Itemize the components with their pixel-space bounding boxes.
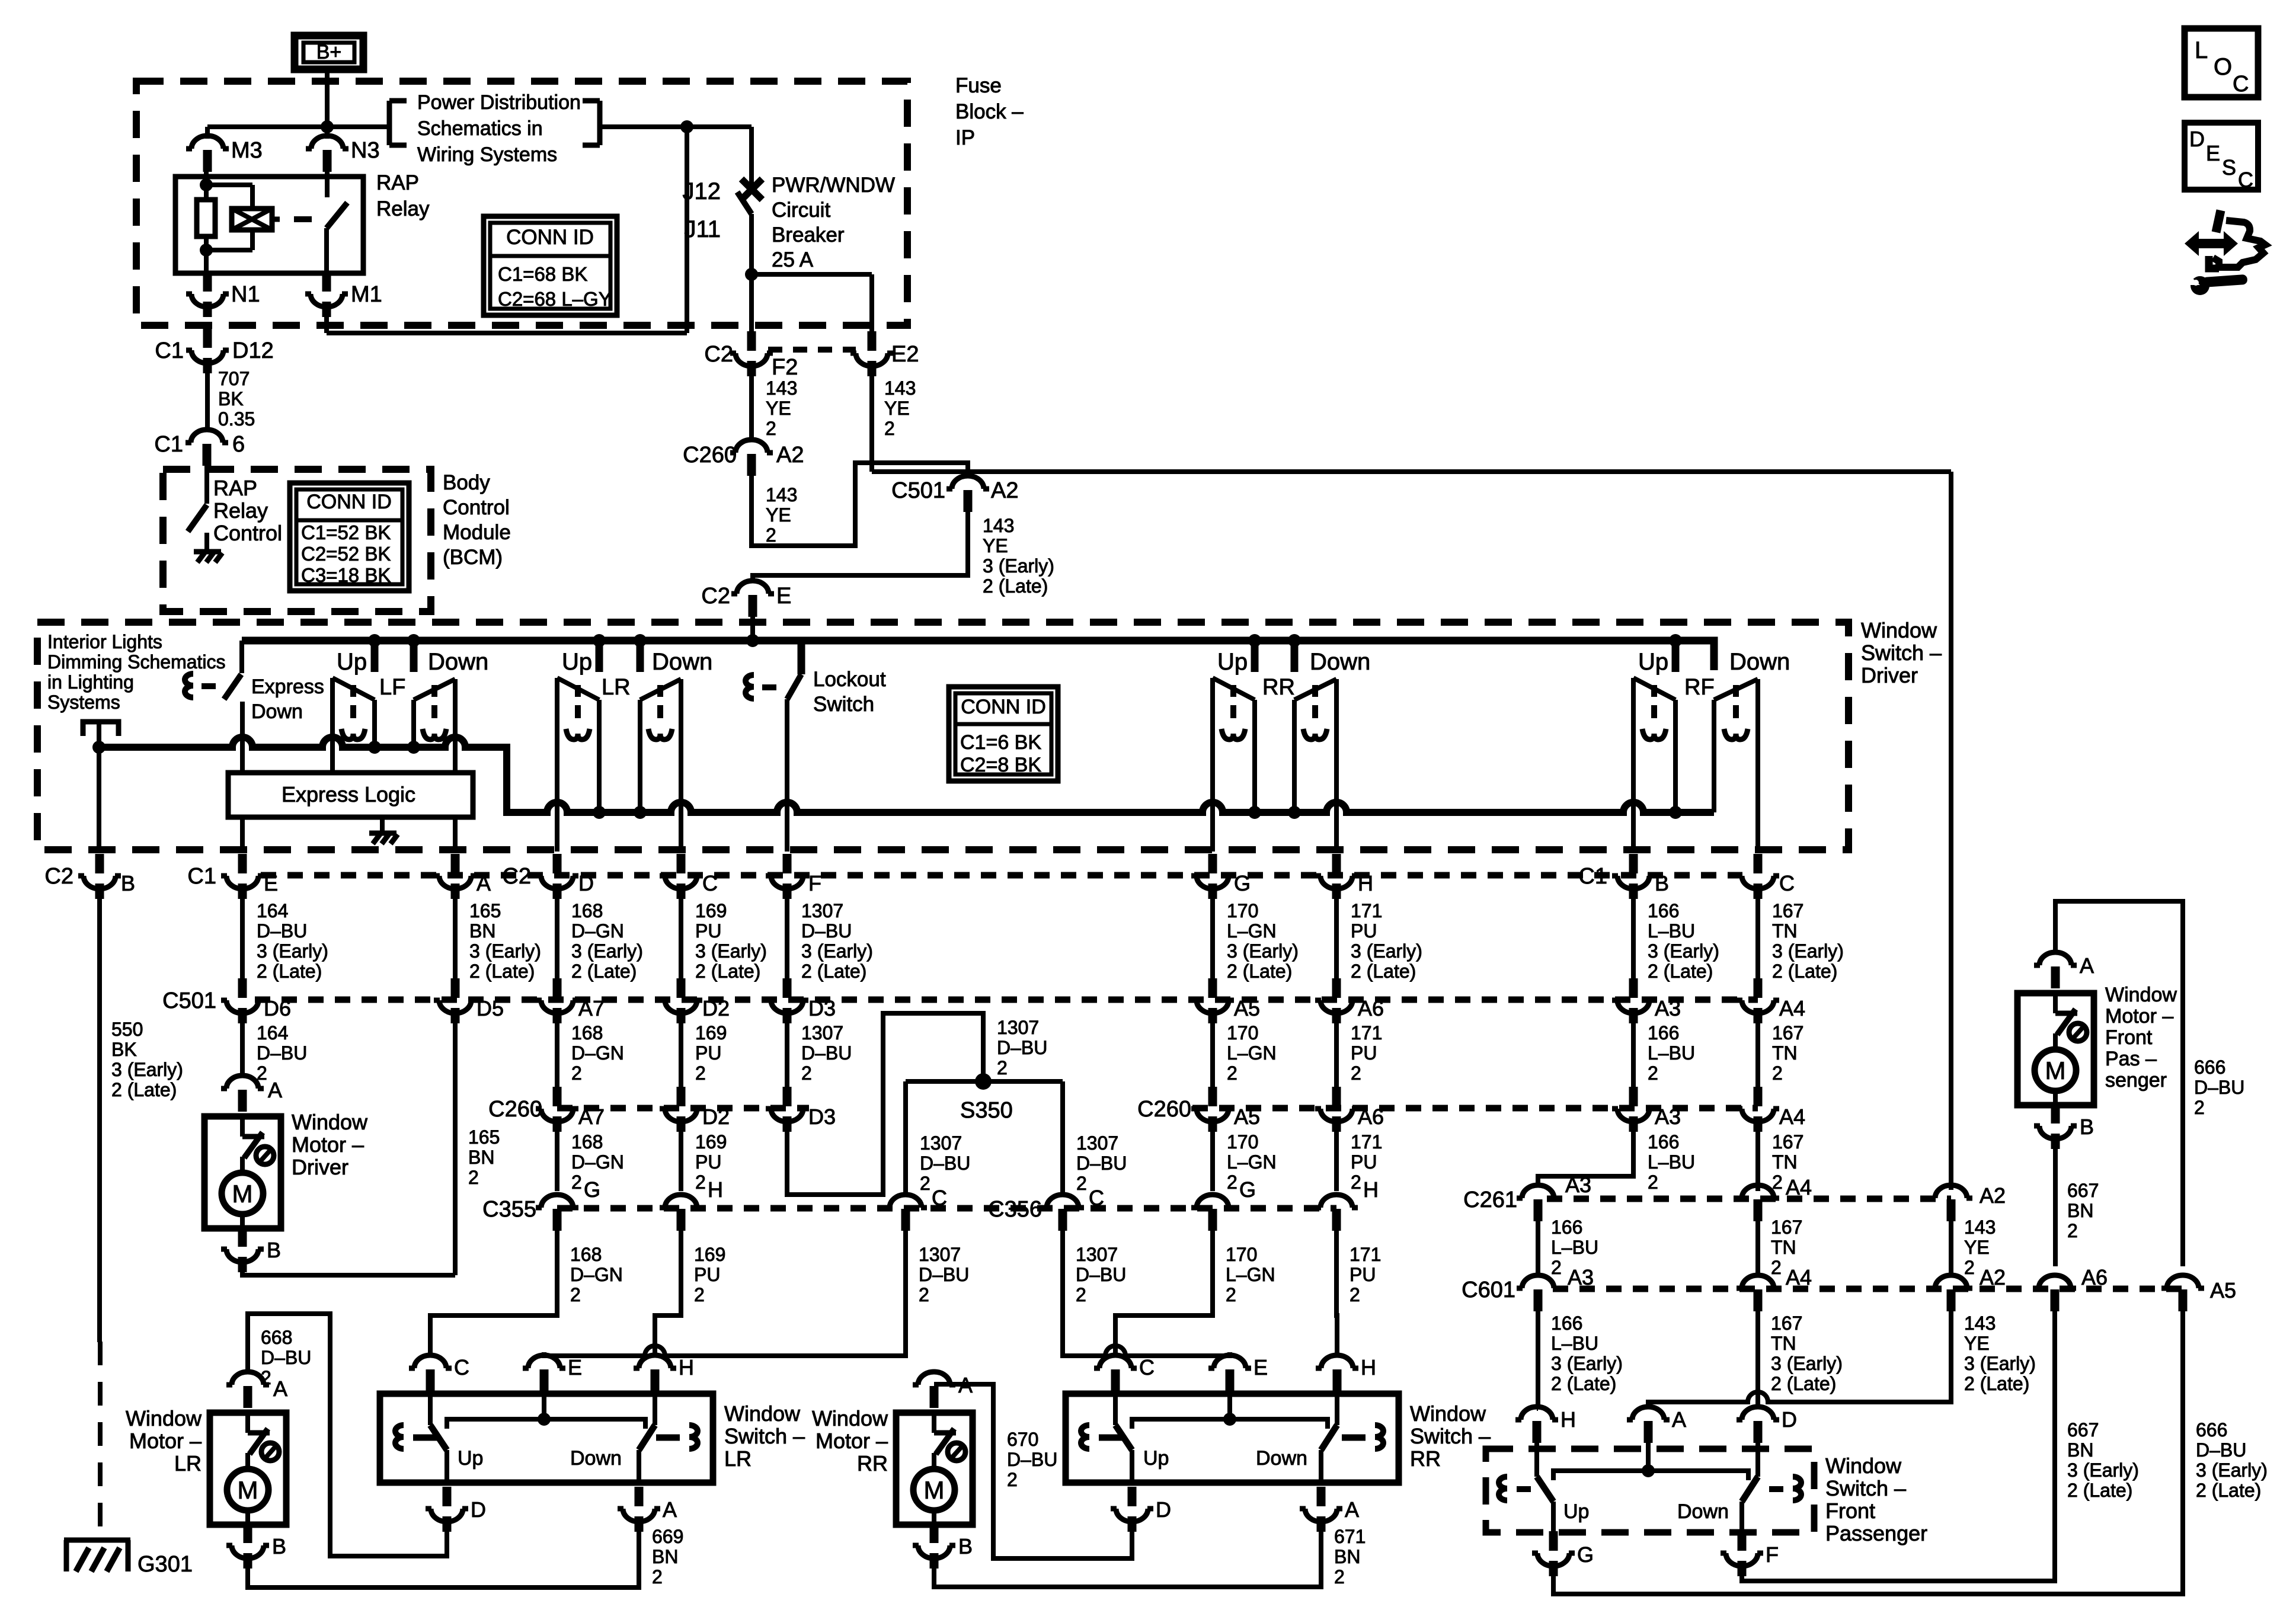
body control module dashed box	[163, 469, 431, 612]
svg-text:167: 167	[1772, 1131, 1803, 1153]
svg-text:2: 2	[2067, 1220, 2078, 1241]
svg-text:senger: senger	[2105, 1069, 2167, 1092]
label 667 BN 2	[2067, 1180, 2099, 1241]
express down switch	[224, 641, 242, 773]
C355 C356 dashed row	[557, 1205, 1336, 1212]
wire 550 BK dashed	[98, 1342, 103, 1536]
connector RR E	[1208, 1355, 1268, 1391]
svg-text:164: 164	[257, 1022, 288, 1044]
wire label 169 PU 2 x1149	[695, 1022, 727, 1084]
wire breaker to E2	[752, 274, 872, 347]
svg-text:2: 2	[997, 1057, 1008, 1078]
svg-text:2: 2	[919, 1284, 929, 1305]
relay actuator dash	[294, 216, 312, 222]
label 1307 D-BU 2 to LR	[919, 1244, 969, 1305]
connector LR E	[523, 1355, 582, 1391]
svg-text:L–BU: L–BU	[1648, 1042, 1695, 1064]
svg-text:3 (Early): 3 (Early)	[983, 555, 1054, 577]
wire label 164 D–BU x409	[257, 900, 328, 982]
svg-text:H: H	[1560, 1407, 1576, 1432]
svg-text:C260: C260	[488, 1097, 542, 1122]
wire B+ to junction	[321, 69, 334, 133]
connector RR A	[1300, 1487, 1359, 1532]
svg-text:LF: LF	[379, 675, 405, 700]
svg-text:Down: Down	[1310, 649, 1370, 675]
connector C501 A5	[1191, 978, 1260, 1023]
labels FP Up Down	[1563, 1500, 1729, 1523]
svg-text:BN: BN	[2067, 1200, 2093, 1221]
connector LR D	[426, 1487, 486, 1532]
svg-text:CONN ID: CONN ID	[506, 226, 594, 249]
svg-text:A: A	[1672, 1407, 1686, 1432]
svg-text:RAP: RAP	[376, 171, 419, 194]
svg-text:A2: A2	[1980, 1183, 2006, 1208]
connector C row1 x1149	[660, 854, 718, 899]
svg-text:170: 170	[1227, 900, 1258, 921]
label 671 BN 2	[1334, 1526, 1366, 1587]
connector C2 D row1 x940	[502, 854, 594, 899]
wire D12 to C1 6	[205, 373, 210, 431]
svg-text:A7: A7	[578, 1105, 605, 1129]
connector C261 A3	[1463, 1185, 1559, 1221]
svg-text:H: H	[679, 1355, 694, 1379]
svg-text:L–BU: L–BU	[1551, 1237, 1598, 1258]
lockout switch	[787, 644, 801, 852]
svg-text:165: 165	[469, 900, 501, 921]
svg-text:2 (Late): 2 (Late)	[1648, 961, 1713, 982]
svg-text:G: G	[1239, 1177, 1256, 1202]
wire LR motor B to switch A	[248, 1532, 639, 1587]
wire label 164 D–BU 2 x409	[257, 1022, 307, 1084]
LF window switch contacts	[332, 678, 455, 773]
wire H to RR H	[1336, 1230, 1337, 1355]
labels RR Up Down	[1143, 1447, 1307, 1470]
label 668 D-BU 2	[261, 1327, 311, 1388]
svg-text:A4: A4	[1786, 1175, 1812, 1199]
svg-text:L–GN: L–GN	[1226, 1264, 1275, 1285]
window switch driver dashed box	[37, 622, 1849, 850]
svg-text:2: 2	[1350, 1284, 1360, 1305]
wire label 1307 D–BU 2 x1328	[801, 1022, 852, 1084]
window switch LR box	[380, 1378, 713, 1483]
svg-text:2: 2	[1964, 1257, 1975, 1278]
svg-text:C1=6 BK: C1=6 BK	[960, 731, 1041, 754]
svg-text:E: E	[776, 584, 791, 609]
svg-text:2 (Late): 2 (Late)	[1772, 961, 1837, 982]
svg-text:A: A	[273, 1377, 287, 1401]
row3 dashed line	[557, 1105, 1758, 1112]
svg-text:Window: Window	[292, 1110, 368, 1134]
svg-text:C: C	[454, 1355, 469, 1379]
svg-text:Body: Body	[443, 471, 490, 494]
svg-text:2 (Late): 2 (Late)	[1551, 1373, 1616, 1394]
connector G row1 x2046	[1191, 854, 1251, 899]
label 550 BK	[111, 1019, 183, 1100]
label 669 BN 2	[652, 1526, 683, 1587]
connector C355row x2046	[1191, 1195, 1234, 1231]
wire C356 C to RR E	[1063, 1230, 1230, 1356]
svg-text:Down: Down	[428, 649, 488, 675]
connector C501 A6	[1315, 978, 1384, 1023]
fuse block IP dashed box	[136, 81, 907, 325]
svg-text:3 (Early): 3 (Early)	[1964, 1353, 2036, 1374]
svg-text:D–GN: D–GN	[571, 920, 624, 942]
svg-text:2: 2	[1076, 1173, 1087, 1194]
wire G to LR C	[430, 1230, 557, 1355]
wire RR D to motor A	[934, 1384, 1132, 1558]
svg-text:667: 667	[2067, 1419, 2099, 1441]
svg-text:2 (Late): 2 (Late)	[801, 961, 866, 982]
svg-text:RR: RR	[857, 1451, 888, 1475]
svg-text:O: O	[2214, 54, 2232, 80]
svg-text:A: A	[268, 1078, 282, 1102]
svg-text:167: 167	[1771, 1217, 1802, 1238]
wire C601 A4 to FP D	[1755, 1310, 1760, 1409]
connector C260 A6	[1315, 1087, 1384, 1132]
svg-text:166: 166	[1551, 1217, 1582, 1238]
svg-text:Down: Down	[1256, 1447, 1307, 1470]
row1 dashed line	[261, 872, 1742, 879]
connector N3	[306, 136, 380, 172]
svg-text:Window: Window	[1410, 1401, 1486, 1426]
svg-text:D2: D2	[702, 1105, 730, 1129]
connector C261 A4	[1737, 1175, 1812, 1221]
svg-text:169: 169	[695, 1131, 727, 1153]
wire C501 D6 to motor A label	[0, 0, 1, 1]
svg-text:D–BU: D–BU	[1007, 1449, 1057, 1470]
C601 dashed row	[1553, 1286, 2183, 1292]
svg-text:Up: Up	[562, 649, 592, 675]
svg-text:D: D	[2189, 127, 2205, 151]
wire label 165 BN x768	[469, 900, 541, 982]
svg-text:H: H	[1363, 1177, 1379, 1202]
svg-text:C2=8 BK: C2=8 BK	[960, 754, 1041, 776]
svg-text:D–GN: D–GN	[571, 1151, 624, 1173]
connector C501 D3	[766, 978, 836, 1023]
svg-text:C1: C1	[154, 432, 183, 457]
pin letters above C355 C356 row	[584, 1177, 1379, 1202]
svg-text:Window: Window	[812, 1406, 888, 1430]
labels LR Up Down	[458, 1447, 622, 1470]
svg-text:A2: A2	[1980, 1265, 2006, 1289]
svg-text:D–BU: D–BU	[1076, 1264, 1126, 1285]
svg-text:168: 168	[571, 900, 603, 921]
svg-text:2: 2	[571, 1172, 582, 1193]
svg-text:YE: YE	[1964, 1333, 1990, 1354]
svg-text:2 (Late): 2 (Late)	[1351, 961, 1416, 982]
svg-text:LR: LR	[724, 1446, 752, 1471]
wire label below row3 x2046	[1227, 1131, 1277, 1193]
svg-text:Lockout: Lockout	[813, 668, 886, 691]
svg-text:3 (Early): 3 (Early)	[1227, 940, 1299, 962]
svg-text:TN: TN	[1771, 1333, 1796, 1354]
svg-text:BN: BN	[652, 1546, 678, 1567]
connector C260 A3	[1612, 1087, 1681, 1132]
svg-text:CONN ID: CONN ID	[306, 491, 392, 513]
svg-text:2: 2	[766, 524, 776, 546]
connector C2 F2	[704, 331, 798, 380]
svg-text:550: 550	[111, 1019, 143, 1040]
label 143 YE 2 below E2	[884, 377, 916, 439]
svg-text:A4: A4	[1779, 996, 1805, 1020]
label C356	[988, 1197, 1042, 1222]
connector N1	[186, 272, 260, 317]
svg-text:Window: Window	[1861, 618, 1937, 642]
svg-text:143: 143	[1964, 1217, 1996, 1238]
svg-text:C260: C260	[1137, 1097, 1191, 1122]
label Window Switch Driver	[1861, 618, 1942, 687]
ground G301	[64, 1540, 193, 1577]
svg-text:YE: YE	[1964, 1237, 1990, 1258]
connector H row1 x2255	[1315, 854, 1373, 899]
svg-text:2: 2	[570, 1284, 581, 1305]
svg-text:2: 2	[1351, 1062, 1361, 1084]
svg-text:2 (Late): 2 (Late)	[2067, 1480, 2132, 1501]
wire label 171 PU x2255	[1351, 900, 1422, 982]
connector C260 A5	[1191, 1087, 1260, 1132]
svg-text:3 (Early): 3 (Early)	[2067, 1459, 2139, 1481]
wire label below row3 x2966	[1772, 1131, 1803, 1193]
svg-text:168: 168	[571, 1131, 603, 1153]
svg-text:Down: Down	[652, 649, 712, 675]
label 707 BK 0.35	[218, 368, 255, 430]
connector M1	[305, 272, 382, 317]
svg-text:B: B	[272, 1534, 286, 1558]
svg-text:BK: BK	[218, 388, 244, 409]
svg-text:143: 143	[983, 515, 1014, 536]
svg-text:YE: YE	[983, 535, 1008, 556]
svg-text:C2=52 BK: C2=52 BK	[301, 543, 391, 565]
connector C2 B row1 x168	[44, 854, 135, 899]
labels LF Up Down	[337, 649, 488, 700]
svg-text:166: 166	[1648, 1131, 1679, 1153]
svg-text:Front: Front	[2105, 1026, 2153, 1049]
svg-text:Breaker: Breaker	[772, 223, 845, 247]
svg-text:LR: LR	[602, 675, 631, 700]
label 143 YE 3 Early 2 Late	[983, 515, 1054, 597]
svg-text:164: 164	[257, 900, 288, 921]
wire label 170 L–GN x2046	[1227, 900, 1299, 982]
express logic ground	[369, 817, 398, 844]
connector C1 B row1 x2756	[1578, 854, 1669, 899]
svg-text:C2=68 L–GY: C2=68 L–GY	[498, 288, 612, 310]
svg-text:D6: D6	[264, 996, 291, 1020]
connector C2 E	[701, 581, 791, 617]
label 143 YE 2 below F2	[766, 377, 797, 439]
connector C260 A7	[536, 1087, 605, 1132]
express logic output wires	[242, 817, 455, 852]
svg-text:Control: Control	[443, 496, 510, 519]
svg-text:168: 168	[571, 1022, 603, 1044]
label 167 TN 2 below C261	[1771, 1217, 1802, 1278]
RF window switch contacts	[1633, 678, 1758, 852]
svg-text:PU: PU	[1351, 1151, 1377, 1173]
svg-text:2: 2	[766, 418, 776, 439]
connector LR motor A	[226, 1372, 287, 1408]
connector RR H	[1316, 1355, 1376, 1391]
wire junction to M3 and N3	[207, 127, 327, 139]
svg-text:707: 707	[218, 368, 250, 389]
CONN ID box driver switch	[949, 687, 1058, 781]
svg-text:666: 666	[2194, 1057, 2225, 1078]
relay coil	[206, 185, 280, 250]
svg-text:A: A	[1345, 1497, 1359, 1522]
wire label 171 PU 2 x2255	[1351, 1022, 1382, 1084]
svg-text:D–GN: D–GN	[570, 1264, 623, 1285]
svg-text:2 (Late): 2 (Late)	[1227, 961, 1292, 982]
svg-text:3 (Early): 3 (Early)	[1772, 940, 1844, 962]
connector C261 A2	[1930, 1183, 2006, 1221]
svg-text:in Lighting: in Lighting	[47, 671, 134, 693]
illumination bus with crossover hops	[92, 700, 1714, 819]
svg-text:167: 167	[1771, 1313, 1802, 1334]
svg-text:2 (Late): 2 (Late)	[571, 961, 637, 982]
wire label below row3 x1149	[695, 1131, 727, 1193]
connector C501 A7	[536, 978, 605, 1023]
svg-text:E: E	[264, 871, 278, 895]
svg-text:2: 2	[1007, 1469, 1018, 1490]
svg-text:PU: PU	[1351, 920, 1377, 942]
svg-text:BN: BN	[1334, 1546, 1360, 1567]
label Express Down	[251, 676, 324, 723]
svg-text:L–GN: L–GN	[1227, 1042, 1277, 1064]
svg-text:H: H	[708, 1177, 723, 1202]
svg-text:PU: PU	[695, 920, 721, 942]
connector C260 D2	[660, 1087, 730, 1132]
svg-text:2: 2	[1648, 1062, 1658, 1084]
connector LR A	[618, 1487, 677, 1532]
svg-text:167: 167	[1772, 1022, 1803, 1044]
row2 to row3 wires	[557, 1023, 1758, 1095]
svg-text:171: 171	[1351, 1131, 1382, 1153]
RR window switch contacts	[1213, 678, 1336, 852]
svg-text:A: A	[477, 871, 491, 895]
wire D6 to motor A	[240, 1023, 245, 1077]
svg-text:Down: Down	[1677, 1500, 1729, 1523]
row3 down wires	[557, 1132, 1758, 1191]
labels RF Up Down	[1638, 649, 1790, 700]
svg-text:F: F	[1766, 1542, 1779, 1567]
svg-text:Motor –: Motor –	[816, 1429, 888, 1453]
wire interior lights to C2 B	[97, 747, 101, 852]
svg-text:Fuse: Fuse	[955, 74, 1002, 97]
svg-text:Driver: Driver	[1861, 663, 1918, 687]
label 171 PU 2 to RR	[1350, 1244, 1381, 1305]
svg-text:1307: 1307	[801, 1022, 843, 1044]
svg-text:D3: D3	[808, 1105, 836, 1129]
svg-text:2: 2	[1772, 1172, 1783, 1193]
connector FP G	[1532, 1531, 1594, 1576]
svg-text:166: 166	[1551, 1313, 1582, 1334]
wire C260 to C501 A2	[752, 463, 968, 546]
svg-text:LR: LR	[174, 1451, 202, 1475]
svg-text:Interior Lights: Interior Lights	[47, 631, 162, 652]
svg-text:2: 2	[1771, 1257, 1782, 1278]
svg-text:Down: Down	[251, 700, 303, 723]
svg-text:PU: PU	[1350, 1264, 1376, 1285]
svg-text:3 (Early): 3 (Early)	[1648, 940, 1719, 962]
svg-text:BK: BK	[111, 1039, 137, 1060]
svg-text:170: 170	[1226, 1244, 1257, 1265]
svg-text:3 (Early): 3 (Early)	[1551, 1353, 1623, 1374]
svg-text:D: D	[471, 1497, 486, 1522]
svg-text:667: 667	[2067, 1180, 2099, 1201]
svg-text:143: 143	[884, 377, 916, 399]
svg-text:Switch –: Switch –	[724, 1424, 805, 1448]
connector FP A	[1627, 1407, 1686, 1443]
svg-text:YE: YE	[884, 398, 910, 419]
connector C row1 x2966	[1737, 854, 1795, 899]
label 666 D-BU 3E2L	[2196, 1419, 2268, 1501]
svg-text:2: 2	[652, 1566, 663, 1587]
power distribution reference bracket left	[327, 101, 407, 145]
svg-text:169: 169	[694, 1244, 725, 1265]
wire label 169 PU x1149	[695, 900, 767, 982]
svg-text:2: 2	[1334, 1566, 1345, 1587]
svg-text:2: 2	[1227, 1062, 1237, 1084]
svg-text:Power Distribution: Power Distribution	[417, 91, 581, 114]
svg-text:Up: Up	[337, 649, 367, 675]
svg-text:A: A	[663, 1497, 677, 1522]
wire label 166 L–BU x2756	[1648, 900, 1719, 982]
svg-text:M: M	[238, 1476, 258, 1504]
wire driver motor B return	[242, 1272, 455, 1275]
svg-text:C: C	[702, 871, 718, 895]
express down actuator	[185, 674, 216, 697]
svg-text:D: D	[578, 871, 594, 895]
svg-text:M: M	[924, 1476, 945, 1504]
svg-text:Up: Up	[458, 1447, 483, 1470]
label Fuse Block IP	[955, 74, 1024, 149]
connector A row1 x768	[434, 854, 491, 899]
svg-text:3 (Early): 3 (Early)	[695, 940, 767, 962]
connector LR H	[634, 1355, 694, 1391]
RAP relay box	[175, 177, 363, 273]
svg-text:C2: C2	[502, 864, 531, 889]
svg-text:C: C	[1139, 1355, 1155, 1379]
connector C501 D6	[221, 978, 291, 1023]
window motor driver	[204, 1110, 368, 1228]
wire label below row3 x2255	[1351, 1131, 1382, 1193]
svg-text:PWR/WNDW: PWR/WNDW	[772, 174, 895, 197]
label Power Distribution Schematics	[417, 91, 581, 166]
label 166 L-BU 3E2L	[1551, 1313, 1623, 1394]
svg-text:G: G	[1234, 871, 1251, 895]
svg-text:C1: C1	[187, 864, 216, 889]
label Window Switch LR	[724, 1401, 805, 1471]
svg-text:2: 2	[1076, 1284, 1086, 1305]
svg-text:Down: Down	[570, 1447, 622, 1470]
LR window switch contacts	[557, 678, 681, 852]
svg-text:B: B	[2080, 1115, 2094, 1139]
svg-text:D12: D12	[232, 338, 274, 363]
label C260 right half	[1137, 1097, 1191, 1122]
lockout actuator	[746, 675, 776, 699]
svg-text:RR: RR	[1410, 1446, 1441, 1471]
connector C355row x1793	[1041, 1186, 1104, 1231]
connector FP motor B	[2034, 1104, 2094, 1149]
svg-text:170: 170	[1227, 1131, 1258, 1153]
svg-text:D–BU: D–BU	[801, 1042, 852, 1064]
svg-text:171: 171	[1350, 1244, 1381, 1265]
svg-text:6: 6	[232, 432, 245, 457]
svg-text:2 (Late): 2 (Late)	[1964, 1373, 2029, 1394]
label Window Switch Front Passenger	[1825, 1454, 1927, 1545]
svg-text:N1: N1	[231, 282, 260, 307]
svg-text:L–GN: L–GN	[1227, 920, 1277, 942]
svg-text:A5: A5	[1234, 1105, 1260, 1129]
connector RR motor B	[913, 1523, 973, 1569]
